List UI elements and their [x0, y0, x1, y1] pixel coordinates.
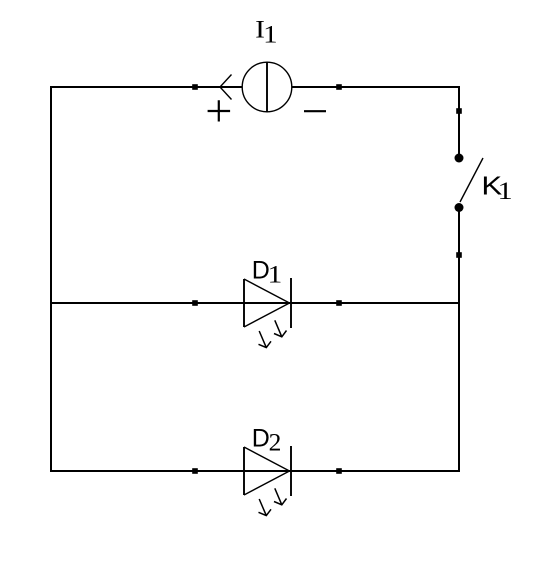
LED D1 anode bar [243, 279, 245, 327]
node terminal D2 row left [192, 468, 198, 474]
current source I1 circle [242, 62, 292, 112]
node terminal right wire above switch [456, 108, 462, 114]
svg-text:1: 1 [498, 176, 513, 205]
LED D2 anode bar [243, 447, 245, 495]
svg-text:2: 2 [269, 428, 282, 457]
node terminal D1 row left [192, 300, 198, 306]
node terminal on top wire right [336, 84, 342, 90]
svg-text:D: D [252, 425, 270, 453]
current source I1 minus sign [304, 110, 326, 112]
current source I1 direction arrow [220, 75, 232, 100]
LED D2 light arrow right [274, 488, 287, 505]
svg-text:1: 1 [268, 260, 283, 289]
LED D1 triangle edges [244, 279, 290, 327]
node terminal right wire below switch [456, 252, 462, 258]
node terminal D1 row right [336, 300, 342, 306]
current source I1 internal bar [266, 62, 268, 111]
LED D1 cathode bar [290, 278, 292, 328]
current source I1 plus sign [208, 100, 231, 121]
wire bottom row (D2 row) [51, 470, 459, 472]
wire left vertical [50, 86, 52, 472]
wire right vertical lower (switch to bottom) [458, 208, 460, 473]
switch K1 upper contact [455, 154, 464, 163]
switch K1 blade [460, 158, 483, 202]
wire top-right segment [292, 86, 460, 88]
node terminal D2 row right [336, 468, 342, 474]
wire middle row (D1 row) [51, 302, 459, 304]
LED D2 cathode bar [290, 446, 292, 496]
wire top-left segment [51, 86, 242, 88]
svg-text:1: 1 [263, 20, 278, 49]
LED D2 light arrow left [259, 499, 272, 516]
switch K1 lower contact [455, 203, 464, 212]
node terminal on top wire left [192, 84, 198, 90]
wire right vertical upper (to switch) [458, 86, 460, 158]
LED D1 light arrow right [274, 320, 287, 337]
LED D1 light arrow left [259, 331, 272, 348]
LED D2 triangle edges [244, 447, 290, 495]
